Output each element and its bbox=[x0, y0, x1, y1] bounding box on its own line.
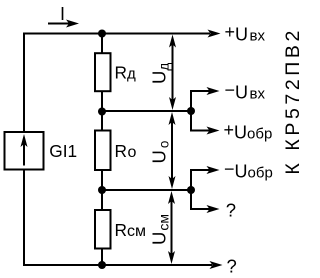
svg-text:I: I bbox=[60, 4, 65, 24]
arrow -Uvx bbox=[207, 87, 220, 95]
node dot top bbox=[98, 30, 106, 38]
current source arrow bbox=[23, 142, 25, 166]
node dot 2 bbox=[98, 108, 106, 116]
wire bottom horizontal bbox=[23, 264, 212, 266]
arrow ? mid bbox=[207, 205, 220, 213]
voltage arrow Usm bbox=[171, 196, 173, 259]
svg-text:GI1: GI1 bbox=[49, 141, 77, 161]
svg-text:Rо: Rо bbox=[115, 141, 137, 161]
arrow ? bottom bbox=[210, 261, 223, 269]
wire chain top segment bbox=[101, 33, 103, 53]
resistor Rsm bbox=[95, 210, 111, 249]
resistor Ro bbox=[95, 131, 111, 171]
wire branch node3 up bbox=[191, 170, 210, 190]
svg-text:Uд: Uд bbox=[149, 63, 172, 84]
arrow I bbox=[48, 23, 71, 25]
wire top horizontal bbox=[24, 33, 210, 35]
wire left vertical bottom bbox=[23, 169, 25, 266]
node dot 3 bbox=[98, 186, 106, 194]
node dot bottom bbox=[98, 261, 106, 269]
svg-text:Uсм: Uсм bbox=[149, 214, 172, 245]
arrow -Uobr bbox=[207, 166, 220, 174]
wire branch node3 down bbox=[191, 190, 210, 209]
svg-text:+Uвх: +Uвх bbox=[225, 22, 266, 45]
svg-text:Rсм: Rсм bbox=[115, 220, 146, 240]
wire node3 horizontal bbox=[102, 189, 191, 191]
svg-text:?: ? bbox=[226, 199, 236, 220]
node dot branch3 bbox=[187, 186, 195, 194]
svg-text:К КР572ПВ2: К КР572ПВ2 bbox=[282, 27, 300, 175]
wire node2 to Ro bbox=[101, 111, 103, 131]
wire branch node2 down bbox=[191, 111, 210, 131]
arrow +Uvx bbox=[208, 30, 221, 38]
svg-text:−Uвх: −Uвх bbox=[225, 80, 266, 103]
current source GI1 box bbox=[5, 132, 44, 170]
voltage arrow Ud bbox=[172, 40, 174, 104]
node dot branch2 bbox=[187, 107, 195, 115]
wire Rd to node2 bbox=[101, 91, 103, 111]
voltage arrow Uo bbox=[171, 117, 173, 184]
arrow +Uobr bbox=[207, 127, 220, 135]
svg-text:+Uобр: +Uобр bbox=[224, 120, 273, 143]
svg-text:Uо: Uо bbox=[149, 141, 172, 164]
wire node2 horizontal bbox=[102, 110, 191, 112]
wire Ro to node3 bbox=[101, 170, 103, 190]
wire branch node2 up bbox=[191, 91, 210, 111]
wire left vertical top bbox=[23, 33, 25, 133]
svg-text:−Uобр: −Uобр bbox=[224, 159, 273, 182]
wire node3 to Rsm bbox=[101, 190, 103, 210]
wire Rsm to bottom bbox=[101, 249, 103, 266]
svg-text:?: ? bbox=[227, 255, 237, 276]
svg-text:Rд: Rд bbox=[115, 63, 136, 83]
resistor Rd bbox=[95, 53, 111, 91]
